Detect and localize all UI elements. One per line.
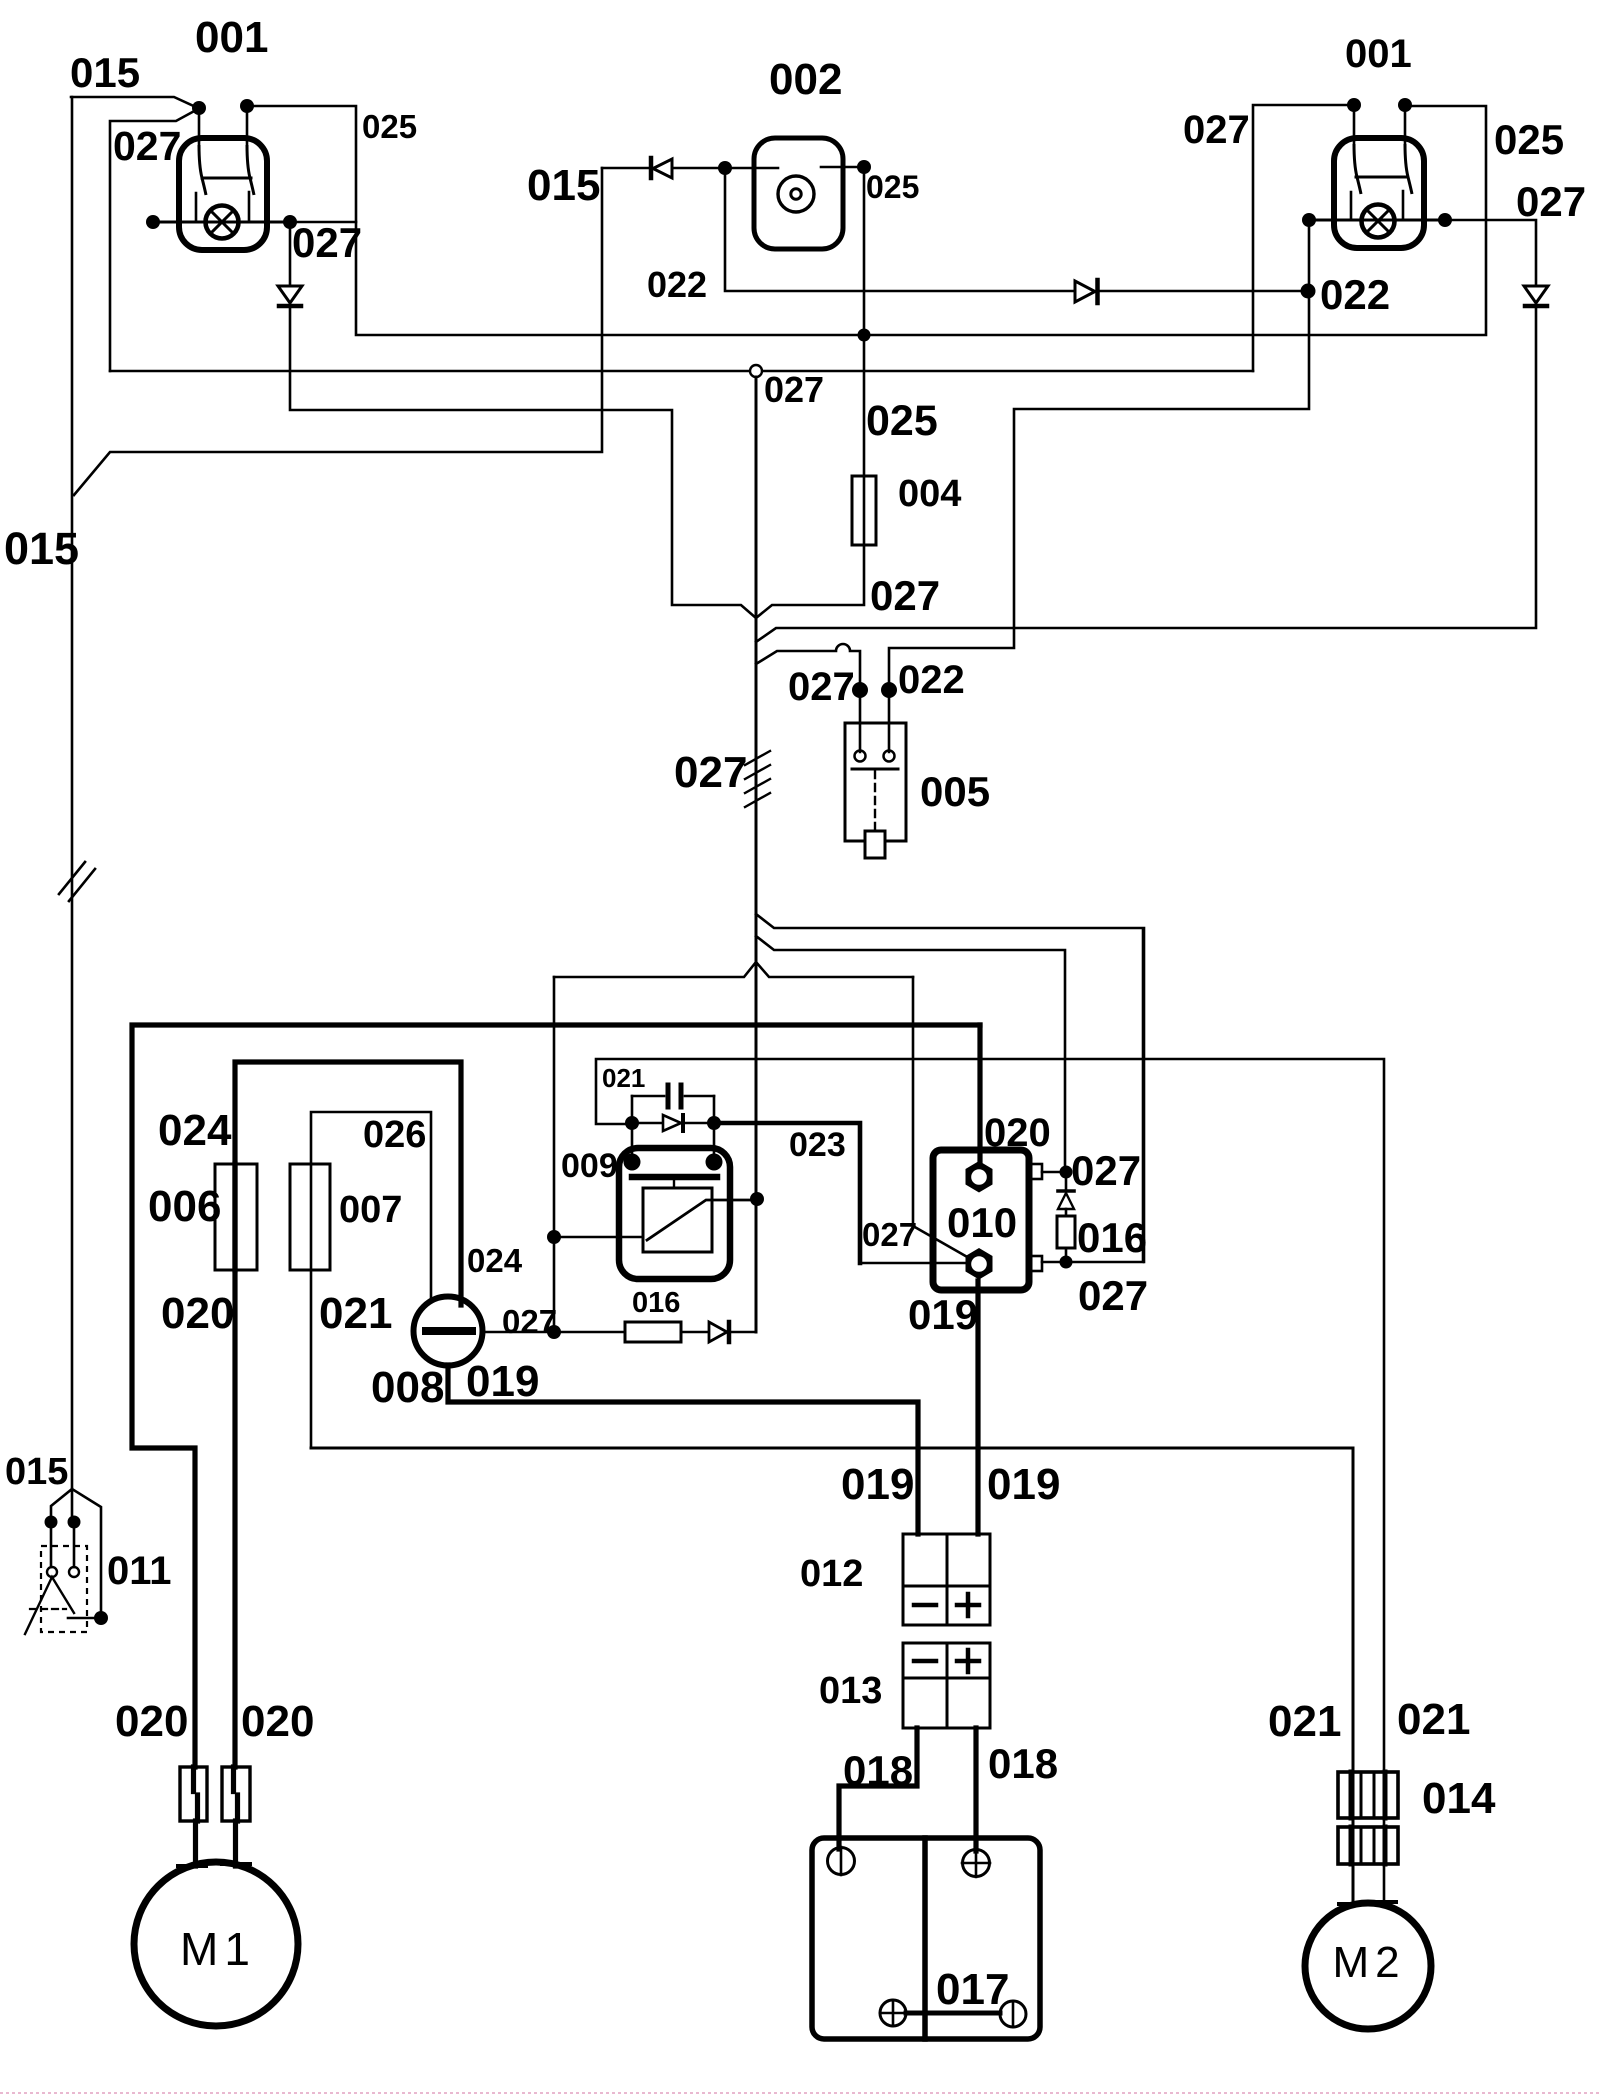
- switch 011 common dot: [94, 1611, 108, 1625]
- break marks on wire 015: [59, 862, 95, 901]
- relay 009 box: [619, 1148, 730, 1279]
- fuse 006: [215, 1164, 257, 1270]
- svg-text:026: 026: [363, 1114, 426, 1156]
- svg-text:009: 009: [561, 1147, 618, 1185]
- svg-text:027: 027: [1071, 1147, 1141, 1194]
- lamp 001 right bulb: [1362, 205, 1395, 238]
- diode D-left under lamp: [289, 229, 292, 284]
- svg-text:007: 007: [339, 1189, 402, 1231]
- switch 011 lever: [25, 1577, 74, 1634]
- relay 009 armature diagonal: [647, 1200, 757, 1240]
- wire 019 thick from 010: [975, 1281, 980, 1534]
- relay 009 contact bar: [632, 1174, 717, 1181]
- svg-text:015: 015: [527, 161, 600, 210]
- svg-text:001: 001: [195, 13, 268, 62]
- svg-text:016: 016: [632, 1287, 680, 1319]
- connector 014 rect 1: [1338, 1772, 1398, 1818]
- motor M2 entry ticks: [1339, 1902, 1396, 1904]
- breaker 010 top nut: [966, 1161, 993, 1193]
- lamp 001 right filament wire: [1309, 219, 1445, 222]
- motor M1: [134, 1862, 298, 2026]
- node 022 junction dot at 002: [718, 161, 732, 175]
- wire 015 to 002: [74, 168, 602, 495]
- resistor 016: [625, 1322, 681, 1342]
- svg-text:019: 019: [466, 1357, 539, 1406]
- wire 021 lower horizontal: [311, 1448, 1353, 1903]
- capacitor drop wires: [632, 1096, 714, 1161]
- svg-text:027: 027: [788, 665, 855, 709]
- resistor 016 right: [1057, 1216, 1075, 1248]
- svg-text:027: 027: [862, 1216, 917, 1253]
- capacitor 021 wires: [632, 1095, 714, 1098]
- diode D-009: [632, 1122, 662, 1125]
- switch 011 contacts: [47, 1567, 57, 1577]
- wire 027 right diode to trunk: [756, 307, 1536, 642]
- switch 005 bar: [852, 768, 898, 771]
- wire 025 bus top: [247, 106, 1486, 335]
- fuse 004: [863, 476, 866, 545]
- svg-text:013: 013: [819, 1670, 882, 1712]
- block 012 minus: [914, 1603, 936, 1608]
- switch 005 box: [845, 723, 906, 841]
- svg-text:004: 004: [898, 473, 961, 515]
- svg-text:018: 018: [843, 1747, 913, 1794]
- svg-text:021: 021: [1268, 1697, 1341, 1746]
- svg-text:024: 024: [158, 1106, 232, 1155]
- wire 026: [311, 1112, 431, 1448]
- switch 011 common wire: [68, 1617, 101, 1620]
- capacitor 021: [668, 1085, 681, 1107]
- block 013 plus: [957, 1650, 979, 1672]
- wire 023 thick: [714, 1123, 860, 1263]
- wire 023 into 010: [860, 1262, 968, 1265]
- svg-text:025: 025: [1494, 116, 1564, 163]
- svg-text:001: 001: [1345, 32, 1412, 76]
- wire 025 stub right of 002: [821, 166, 864, 169]
- svg-text:027: 027: [1183, 108, 1250, 152]
- svg-text:019: 019: [908, 1291, 978, 1338]
- switch 005 plunger box: [865, 831, 885, 858]
- breaker 010 bottom nut: [966, 1248, 993, 1280]
- svg-text:020: 020: [241, 1697, 314, 1746]
- motor M1 entry ticks: [178, 1864, 250, 1866]
- wire 027 right lamp to diode: [1445, 220, 1536, 284]
- svg-text:015: 015: [70, 49, 140, 96]
- diode D-right: [1524, 286, 1548, 303]
- svg-text:011: 011: [107, 1549, 172, 1593]
- lamp 001 left bulb: [206, 206, 239, 239]
- node A dot: [625, 1116, 639, 1130]
- wire 021 long run to M2: [596, 1059, 1384, 1903]
- svg-text:019: 019: [841, 1460, 914, 1509]
- meter 008 circle: [414, 1297, 483, 1366]
- lamp 001 right contact bar: [1356, 176, 1406, 179]
- wire 027 coil left: [554, 1236, 643, 1239]
- svg-text:025: 025: [362, 108, 417, 145]
- wire 018 right: [973, 1728, 978, 1851]
- svg-text:022: 022: [1320, 271, 1390, 318]
- svg-text:019: 019: [987, 1460, 1060, 1509]
- svg-text:027: 027: [1516, 178, 1586, 225]
- relay 009 terminal dots: [624, 1154, 641, 1171]
- svg-text:M2: M2: [1332, 1938, 1405, 1987]
- svg-text:017: 017: [936, 1965, 1009, 2014]
- battery 017 divider: [922, 1838, 928, 2039]
- wire 025 vertical to fuse 004: [863, 167, 866, 476]
- block 013: [903, 1643, 990, 1728]
- node 025 junction dot: [858, 329, 871, 342]
- wire 015 left vertical: [71, 97, 74, 1489]
- battery jumper neg: [1000, 2001, 1026, 2027]
- svg-text:027: 027: [1078, 1272, 1148, 1319]
- lamp 001 right wires: [1354, 105, 1405, 144]
- block 013 minus: [914, 1659, 936, 1664]
- node dot coil left: [547, 1230, 561, 1244]
- battery jumper pos: [880, 2000, 906, 2026]
- svg-text:005: 005: [920, 768, 990, 815]
- trunk 027 vertical: [755, 377, 758, 1332]
- battery 017 jumper: [906, 2011, 1000, 2016]
- lamp 001 left contact bar: [202, 177, 251, 180]
- relay 009 coil box: [643, 1188, 712, 1252]
- svg-text:024: 024: [467, 1242, 523, 1279]
- motor M2: [1305, 1903, 1431, 2029]
- diode D-002: [649, 158, 654, 178]
- svg-text:014: 014: [1422, 1774, 1496, 1823]
- wire 015-002 horizontal: [602, 167, 649, 170]
- connector 020 right: [222, 1767, 250, 1821]
- svg-text:020: 020: [984, 1111, 1051, 1155]
- wire 027 fuse to trunk: [756, 545, 864, 618]
- svg-text:021: 021: [602, 1063, 645, 1093]
- battery 017 pos terminal: [963, 1850, 990, 1877]
- trunk hatch marks 027: [745, 751, 770, 807]
- diode D-010: [1065, 1172, 1068, 1190]
- svg-text:002: 002: [769, 55, 842, 104]
- lamp 001 right terminals: [1347, 98, 1361, 112]
- switch 011 feed split: [51, 1489, 101, 1618]
- wire 015 top-left feed: [71, 97, 198, 108]
- wire 022 down from 002: [725, 168, 1076, 291]
- wire 024 thick: [235, 1062, 461, 1767]
- relay 009 bar stub: [673, 1179, 675, 1188]
- wire 027 diode to trunk: [290, 307, 756, 618]
- connector 014 rect 2: [1338, 1827, 1398, 1864]
- socket 002 box: [754, 138, 843, 249]
- socket 002 symbol: [778, 176, 814, 212]
- block 012 plus: [957, 1594, 979, 1616]
- wires into 005: [860, 690, 889, 752]
- fuse 007: [290, 1164, 330, 1270]
- svg-text:027: 027: [292, 219, 362, 266]
- node B dot: [707, 1116, 721, 1130]
- svg-text:021: 021: [1397, 1695, 1470, 1744]
- switch 011 dashed box: [41, 1546, 87, 1632]
- svg-text:027: 027: [870, 572, 940, 619]
- svg-text:020: 020: [161, 1289, 234, 1338]
- wire 027 trunk branch to 010 upper: [756, 914, 1144, 1262]
- wire 020 drop to 010: [977, 1025, 982, 1166]
- svg-text:023: 023: [789, 1126, 846, 1164]
- svg-text:015: 015: [5, 1451, 68, 1493]
- svg-text:025: 025: [866, 397, 938, 445]
- svg-text:022: 022: [647, 264, 707, 305]
- svg-text:027: 027: [674, 748, 747, 797]
- wire 025 stub lamp to bus: [290, 221, 356, 224]
- breaker 010 box: [933, 1150, 1029, 1290]
- diode D-016: [709, 1322, 727, 1342]
- wire 027 tab top: [1042, 1171, 1065, 1174]
- meter 008 wire right: [482, 1331, 554, 1334]
- wire 027 lower cross branch: [554, 962, 913, 977]
- lamp 001 right stubs: [1351, 191, 1403, 220]
- svg-text:006: 006: [148, 1182, 221, 1231]
- node 027 dot at 005: [852, 682, 868, 698]
- breaker 010 tabs: [1029, 1164, 1042, 1179]
- lamp 001 left box: [179, 138, 267, 250]
- connector 020 left: [180, 1767, 207, 1821]
- wire 027 trunk branch to 010 diode: [756, 936, 1065, 1172]
- svg-text:022: 022: [898, 658, 965, 702]
- wire 027 right lamp branch: [1253, 105, 1354, 371]
- wire 027 from left lamp: [110, 109, 198, 371]
- diode D-022: [1075, 281, 1095, 302]
- switch 011 dashed link: [30, 1608, 66, 1610]
- switch 011 terminal dots: [45, 1516, 58, 1529]
- battery 017 box: [812, 1838, 1040, 2039]
- meter 008 bar: [426, 1327, 472, 1335]
- svg-text:020: 020: [115, 1697, 188, 1746]
- battery 017 neg terminal: [828, 1848, 855, 1875]
- node 027 dot on trunk: [750, 1192, 764, 1206]
- switch 005 contacts: [855, 751, 866, 762]
- svg-text:027: 027: [113, 123, 181, 169]
- svg-text:016: 016: [1077, 1214, 1147, 1261]
- scan artifact line: [0, 2092, 1600, 2094]
- wire 020 thick main: [132, 1025, 980, 1767]
- svg-text:012: 012: [800, 1553, 863, 1595]
- wire 022 from right lamp down: [889, 220, 1309, 690]
- wire 027 left drop: [553, 977, 556, 1332]
- lamp 001 left wires: [199, 106, 247, 145]
- svg-text:015: 015: [4, 523, 79, 574]
- wire 027 branch to 005: [756, 644, 860, 690]
- svg-text:025: 025: [866, 169, 919, 205]
- wire 027 tab bottom: [1042, 930, 1143, 1262]
- lamp 001 right box: [1334, 138, 1424, 248]
- wire 027 resistor 016 row: [554, 1331, 625, 1334]
- block 012: [903, 1534, 990, 1625]
- svg-text:010: 010: [947, 1199, 1017, 1246]
- node 022 dot at 005: [881, 682, 897, 698]
- node 027 connector circle: [750, 365, 762, 377]
- node 022 dot right: [1301, 284, 1316, 299]
- lamp 001 left terminals: [192, 101, 206, 115]
- wire 019 thick from 008: [448, 1365, 918, 1534]
- lamp 001 left filament wire: [153, 221, 290, 224]
- svg-text:018: 018: [988, 1740, 1058, 1787]
- node dot tab bottom: [1060, 1256, 1073, 1269]
- switch 011 wire mid: [73, 1522, 76, 1567]
- svg-text:008: 008: [371, 1363, 444, 1412]
- svg-text:027: 027: [502, 1303, 557, 1340]
- wire 027 right drop to 010: [913, 977, 976, 1262]
- wire 027 main horizontal: [110, 370, 1253, 373]
- lamp 001 left stubs: [196, 192, 249, 222]
- svg-text:027: 027: [764, 369, 824, 410]
- wire 018 left: [839, 1728, 917, 1849]
- svg-text:M1: M1: [180, 1923, 256, 1975]
- switch 005 plunger dashed: [874, 771, 876, 830]
- svg-text:021: 021: [319, 1289, 392, 1338]
